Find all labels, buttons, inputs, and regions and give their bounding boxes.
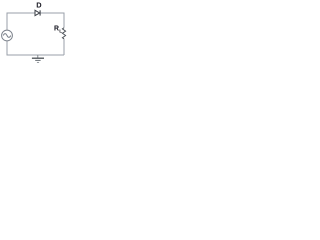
AC source V1 circle — [2, 30, 13, 41]
wire bottom: bottom-right corner to bottom-left corner up to source — [7, 41, 64, 55]
diode D triangle (anode) — [35, 10, 40, 15]
ground bar 2 — [35, 59, 40, 61]
diode D cathode bar — [39, 10, 41, 15]
ground stem — [37, 55, 39, 58]
wire right-bottom: resistor bottom to bottom-right corner — [63, 39, 65, 55]
resistor RL zigzag — [62, 28, 65, 39]
ground bar 1 — [32, 57, 44, 59]
svg-text:D: D — [36, 0, 42, 9]
AC source sine symbol — [3, 34, 11, 38]
wire top-left: source top to diode anode — [7, 13, 35, 30]
svg-text:L: L — [59, 28, 62, 34]
wire top-right: diode cathode to right corner down to resistor — [41, 13, 64, 28]
ground bar 3 — [37, 61, 39, 63]
